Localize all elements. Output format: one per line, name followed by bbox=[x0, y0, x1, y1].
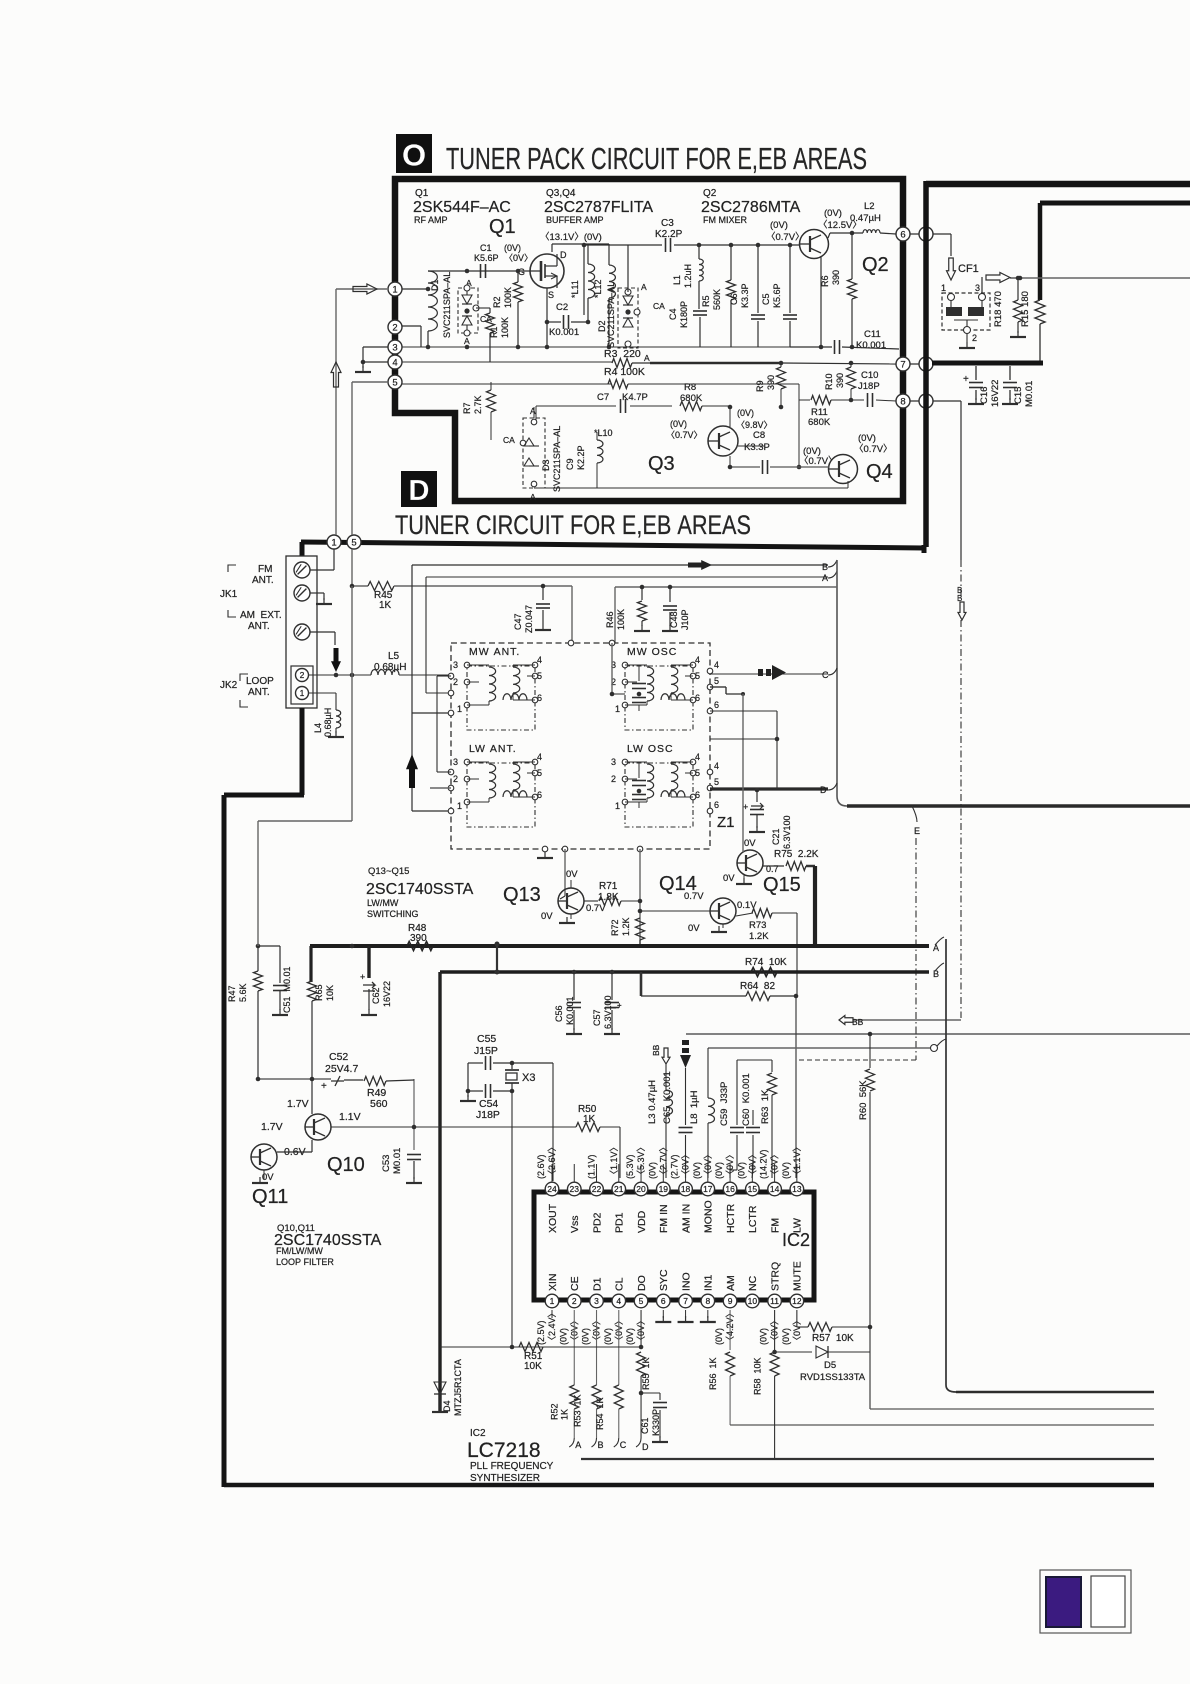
svg-text:SYNTHESIZER: SYNTHESIZER bbox=[470, 1473, 540, 1484]
svg-text:680K: 680K bbox=[680, 393, 703, 404]
svg-text:14: 14 bbox=[770, 1184, 780, 1194]
svg-text:R55 1K: R55 1K bbox=[641, 1357, 651, 1390]
svg-text:C57: C57 bbox=[592, 1009, 602, 1026]
svg-text:Z1: Z1 bbox=[717, 814, 735, 831]
svg-text:R4 100K: R4 100K bbox=[604, 366, 645, 378]
svg-text:(2.7V): (2.7V) bbox=[670, 1154, 680, 1179]
svg-text:R9: R9 bbox=[755, 380, 765, 392]
svg-text:Q10: Q10 bbox=[327, 1154, 365, 1176]
svg-text:IN1: IN1 bbox=[703, 1275, 715, 1292]
svg-text:D: D bbox=[560, 250, 567, 260]
svg-text:16V22: 16V22 bbox=[990, 380, 1001, 407]
svg-text:M0.01: M0.01 bbox=[392, 1148, 403, 1174]
svg-text:FM: FM bbox=[258, 564, 272, 575]
svg-text:560K: 560K bbox=[712, 289, 722, 310]
svg-text:R5: R5 bbox=[701, 295, 711, 307]
svg-text:C60 K0.001: C60 K0.001 bbox=[741, 1073, 752, 1126]
svg-text:SVC211SPA–AL: SVC211SPA–AL bbox=[606, 282, 616, 348]
svg-text:1: 1 bbox=[615, 801, 620, 811]
svg-text:1.2K: 1.2K bbox=[621, 917, 631, 936]
svg-text:R52: R52 bbox=[549, 1403, 559, 1420]
svg-text:8: 8 bbox=[900, 396, 905, 407]
svg-text:(0V): (0V) bbox=[770, 220, 788, 231]
svg-text:2.7K: 2.7K bbox=[473, 395, 483, 414]
svg-text:S: S bbox=[548, 290, 554, 300]
svg-text:10K: 10K bbox=[325, 985, 335, 1001]
svg-text:BB: BB bbox=[651, 1044, 661, 1056]
svg-text:(0V): (0V) bbox=[692, 1162, 702, 1179]
svg-text:C16: C16 bbox=[979, 387, 990, 404]
svg-text:3: 3 bbox=[453, 757, 458, 767]
svg-text:Q1: Q1 bbox=[415, 188, 429, 199]
svg-text:K5.6P: K5.6P bbox=[474, 253, 499, 263]
svg-text:C48: C48 bbox=[669, 611, 679, 628]
svg-text:K0.001: K0.001 bbox=[549, 327, 579, 338]
svg-text:A: A bbox=[822, 573, 828, 583]
svg-text:FM/LW/MW: FM/LW/MW bbox=[276, 1246, 323, 1256]
svg-text:23: 23 bbox=[570, 1184, 580, 1194]
svg-text:(0V): (0V) bbox=[504, 243, 521, 253]
svg-text:5: 5 bbox=[714, 676, 719, 686]
svg-text:HCTR: HCTR bbox=[725, 1203, 737, 1233]
svg-text:6.3V100: 6.3V100 bbox=[603, 995, 613, 1029]
svg-text:0.47µH: 0.47µH bbox=[850, 213, 881, 224]
svg-text:IC2: IC2 bbox=[470, 1428, 486, 1439]
svg-text:〈0V〉: 〈0V〉 bbox=[747, 1150, 757, 1179]
svg-text:C52: C52 bbox=[329, 1051, 348, 1063]
svg-text:2: 2 bbox=[611, 774, 616, 784]
svg-text:〈0V〉: 〈0V〉 bbox=[504, 253, 533, 263]
svg-text:(0V): (0V) bbox=[714, 1328, 724, 1345]
svg-text:PD1: PD1 bbox=[614, 1212, 626, 1233]
svg-text:R53 1K: R53 1K bbox=[573, 1394, 583, 1427]
svg-text:R58 10K: R58 10K bbox=[753, 1357, 763, 1395]
svg-text:CA: CA bbox=[503, 435, 515, 445]
svg-text:C10: C10 bbox=[861, 370, 878, 381]
svg-text:D: D bbox=[820, 785, 827, 795]
svg-text:6: 6 bbox=[661, 1296, 666, 1306]
svg-text:NC: NC bbox=[747, 1275, 759, 1291]
svg-text:R72: R72 bbox=[610, 919, 620, 936]
svg-text:L2: L2 bbox=[864, 201, 875, 212]
svg-text:AM IN: AM IN bbox=[680, 1204, 692, 1233]
svg-text:C51 M0.01: C51 M0.01 bbox=[282, 966, 292, 1013]
svg-text:E: E bbox=[914, 826, 920, 836]
svg-text:FM IN: FM IN bbox=[658, 1204, 670, 1233]
svg-text:MONO: MONO bbox=[703, 1200, 715, 1233]
svg-text:17: 17 bbox=[703, 1184, 713, 1194]
svg-text:+: + bbox=[321, 1081, 327, 1092]
svg-text:13: 13 bbox=[792, 1184, 802, 1194]
svg-text:L8 1µH: L8 1µH bbox=[689, 1090, 700, 1124]
svg-text:1: 1 bbox=[457, 704, 462, 714]
svg-text:390: 390 bbox=[835, 373, 845, 388]
svg-text:BUFFER AMP: BUFFER AMP bbox=[546, 215, 604, 225]
svg-text:(14.2V): (14.2V) bbox=[759, 1149, 769, 1179]
svg-text:1: 1 bbox=[300, 688, 305, 698]
svg-text:12: 12 bbox=[792, 1296, 802, 1306]
svg-text:R54 1K: R54 1K bbox=[595, 1397, 605, 1430]
svg-text:R10: R10 bbox=[824, 373, 834, 390]
svg-text:100K: 100K bbox=[500, 317, 510, 338]
svg-text:(0V): (0V) bbox=[824, 208, 842, 219]
svg-text:5.6K: 5.6K bbox=[238, 983, 248, 1002]
svg-text:7: 7 bbox=[683, 1296, 688, 1306]
svg-text:K0.001: K0.001 bbox=[565, 996, 575, 1025]
svg-text:DO: DO bbox=[636, 1275, 648, 1291]
svg-text:Q4: Q4 bbox=[866, 461, 893, 483]
svg-text:B: B bbox=[598, 1440, 604, 1450]
svg-text:15: 15 bbox=[748, 1184, 758, 1194]
svg-text:(0V): (0V) bbox=[759, 1328, 769, 1345]
svg-text:1.2K: 1.2K bbox=[749, 931, 769, 942]
svg-text:3: 3 bbox=[594, 1296, 599, 1306]
svg-text:6: 6 bbox=[714, 700, 719, 710]
svg-text:0.7V: 0.7V bbox=[684, 891, 704, 902]
svg-text:2SK544F–AC: 2SK544F–AC bbox=[413, 199, 511, 216]
svg-text:0V: 0V bbox=[723, 873, 735, 884]
svg-text:2: 2 bbox=[572, 1296, 577, 1306]
svg-text:A: A bbox=[641, 282, 647, 292]
svg-text:Q3: Q3 bbox=[648, 453, 675, 475]
svg-text:MW OSC: MW OSC bbox=[627, 646, 677, 658]
svg-text:LW ANT.: LW ANT. bbox=[469, 743, 517, 755]
svg-text:ANT.: ANT. bbox=[248, 687, 270, 698]
svg-text:R57 10K: R57 10K bbox=[812, 1333, 854, 1344]
svg-text:(0V): (0V) bbox=[737, 408, 754, 418]
svg-text:*L12: *L12 bbox=[593, 279, 603, 298]
svg-text:3: 3 bbox=[975, 283, 980, 293]
svg-text:(2.6V): (2.6V) bbox=[536, 1154, 546, 1179]
svg-text:SWITCHING: SWITCHING bbox=[367, 909, 419, 919]
svg-text:STRQ: STRQ bbox=[769, 1262, 781, 1291]
svg-text:CF1: CF1 bbox=[958, 263, 979, 275]
svg-text:C55: C55 bbox=[477, 1033, 496, 1045]
svg-text:18: 18 bbox=[681, 1184, 691, 1194]
svg-text:R15 180: R15 180 bbox=[1020, 291, 1031, 327]
svg-text:16V22: 16V22 bbox=[382, 981, 392, 1007]
svg-text:R74 10K: R74 10K bbox=[745, 957, 787, 968]
svg-text:LW: LW bbox=[792, 1218, 804, 1233]
svg-text:R63 1K: R63 1K bbox=[760, 1089, 771, 1124]
svg-text:AM EXT.: AM EXT. bbox=[240, 610, 282, 621]
svg-text:J18P: J18P bbox=[476, 1109, 500, 1121]
svg-text:LW OSC: LW OSC bbox=[627, 743, 674, 755]
svg-text:BB: BB bbox=[852, 1017, 864, 1027]
svg-text:C56: C56 bbox=[554, 1005, 564, 1022]
svg-text:〈2.6V〉: 〈2.6V〉 bbox=[547, 1142, 557, 1179]
svg-text:C6: C6 bbox=[729, 293, 739, 305]
svg-text:LOOP FILTER: LOOP FILTER bbox=[276, 1257, 334, 1267]
svg-text:SVC211SPA–AL: SVC211SPA–AL bbox=[552, 426, 562, 492]
svg-text:(2.5V): (2.5V) bbox=[536, 1320, 546, 1345]
svg-text:C62: C62 bbox=[371, 987, 381, 1004]
svg-text:+: + bbox=[617, 1001, 622, 1010]
svg-text:0.7V: 0.7V bbox=[586, 903, 606, 914]
svg-text:(0V): (0V) bbox=[558, 1328, 568, 1345]
svg-text:0.7: 0.7 bbox=[766, 864, 779, 874]
svg-text:Q13: Q13 bbox=[503, 884, 541, 906]
svg-text:10K: 10K bbox=[524, 1361, 542, 1372]
svg-text:C7: C7 bbox=[597, 392, 609, 403]
svg-text:19: 19 bbox=[659, 1184, 669, 1194]
svg-text:0V: 0V bbox=[566, 869, 578, 880]
svg-text:3: 3 bbox=[453, 660, 458, 670]
svg-text:560: 560 bbox=[370, 1098, 388, 1110]
svg-text:R73: R73 bbox=[749, 920, 766, 931]
svg-text:C3: C3 bbox=[661, 218, 674, 229]
svg-text:Q13~Q15: Q13~Q15 bbox=[368, 866, 409, 877]
svg-text:D5: D5 bbox=[824, 1360, 836, 1371]
svg-text:R2: R2 bbox=[492, 296, 502, 308]
svg-text:20: 20 bbox=[636, 1184, 646, 1194]
svg-text:JK1: JK1 bbox=[220, 589, 238, 600]
svg-text:8: 8 bbox=[705, 1296, 710, 1306]
svg-text:0V: 0V bbox=[744, 838, 756, 849]
svg-text:1K: 1K bbox=[379, 600, 392, 611]
svg-text:〈5.3V〉: 〈5.3V〉 bbox=[636, 1142, 646, 1179]
svg-text:M0.01: M0.01 bbox=[1024, 381, 1035, 407]
svg-text:1: 1 bbox=[941, 283, 946, 293]
svg-text:(0V): (0V) bbox=[858, 433, 876, 444]
svg-text:Z0.047: Z0.047 bbox=[524, 605, 534, 633]
svg-text:〈13.1V〉(0V): 〈13.1V〉(0V) bbox=[540, 232, 602, 243]
svg-text:CE: CE bbox=[569, 1276, 581, 1291]
svg-text:CA: CA bbox=[653, 301, 665, 311]
svg-text:Q2: Q2 bbox=[703, 188, 717, 199]
svg-text:L4: L4 bbox=[313, 723, 323, 733]
svg-text:390: 390 bbox=[831, 270, 841, 285]
svg-text:〈0V〉: 〈0V〉 bbox=[770, 1150, 780, 1179]
svg-text:〈0.7V〉: 〈0.7V〉 bbox=[799, 456, 838, 467]
svg-text:2: 2 bbox=[453, 774, 458, 784]
svg-text:C21: C21 bbox=[771, 828, 781, 845]
svg-text:K5.6P: K5.6P bbox=[772, 283, 782, 308]
svg-text:C8: C8 bbox=[753, 430, 765, 441]
svg-text:Q15: Q15 bbox=[763, 874, 801, 896]
svg-text:+: + bbox=[963, 374, 969, 385]
svg-text:A: A bbox=[575, 1440, 581, 1450]
svg-text:+: + bbox=[743, 802, 748, 812]
svg-text:D4: D4 bbox=[442, 1400, 452, 1412]
svg-text:VDD: VDD bbox=[636, 1210, 648, 1233]
svg-text:(0V): (0V) bbox=[714, 1162, 724, 1179]
svg-text:7: 7 bbox=[900, 359, 905, 370]
svg-text:6: 6 bbox=[900, 229, 905, 240]
svg-text:Q11: Q11 bbox=[252, 1186, 288, 1208]
svg-text:K0.001: K0.001 bbox=[856, 340, 886, 351]
svg-text:*L11: *L11 bbox=[570, 280, 580, 298]
svg-text:J15P: J15P bbox=[474, 1045, 498, 1057]
svg-text:K3.3P: K3.3P bbox=[740, 283, 750, 308]
svg-text:(5.3V): (5.3V) bbox=[625, 1154, 635, 1179]
svg-text:R65: R65 bbox=[314, 984, 324, 1001]
svg-text:1.7V: 1.7V bbox=[261, 1121, 283, 1133]
svg-text:C53: C53 bbox=[381, 1155, 392, 1172]
svg-text:K2.2P: K2.2P bbox=[576, 445, 586, 470]
svg-text:K3.3P: K3.3P bbox=[744, 442, 770, 453]
svg-text:RF AMP: RF AMP bbox=[414, 215, 448, 225]
svg-text:(0V): (0V) bbox=[736, 1162, 746, 1179]
svg-text:2: 2 bbox=[453, 677, 458, 687]
svg-text:1: 1 bbox=[615, 704, 620, 714]
svg-text:5: 5 bbox=[392, 377, 397, 388]
svg-text:D: D bbox=[642, 1442, 649, 1452]
svg-text:FM: FM bbox=[769, 1218, 781, 1233]
svg-text:4: 4 bbox=[714, 761, 719, 771]
svg-text:1.1V: 1.1V bbox=[339, 1111, 361, 1123]
svg-text:LC7218: LC7218 bbox=[467, 1439, 541, 1462]
svg-text:3: 3 bbox=[392, 342, 397, 353]
svg-text:+: + bbox=[360, 972, 365, 982]
svg-text:2: 2 bbox=[300, 670, 305, 680]
svg-text:(0V): (0V) bbox=[781, 1328, 791, 1345]
svg-text:11: 11 bbox=[770, 1296, 779, 1306]
svg-text:INO: INO bbox=[680, 1272, 692, 1291]
svg-text:〈0V〉: 〈0V〉 bbox=[725, 1150, 735, 1179]
svg-text:1K: 1K bbox=[559, 1409, 569, 1420]
svg-text:〈1.1V〉: 〈1.1V〉 bbox=[609, 1142, 619, 1179]
svg-text:R46: R46 bbox=[605, 611, 615, 628]
svg-text:MTZJ5R1CTA: MTZJ5R1CTA bbox=[453, 1359, 463, 1416]
svg-text:K180P: K180P bbox=[679, 301, 689, 328]
svg-text:(0V): (0V) bbox=[603, 1328, 613, 1345]
svg-text:24: 24 bbox=[547, 1184, 557, 1194]
svg-text:B: B bbox=[822, 562, 828, 572]
svg-text:K330P: K330P bbox=[651, 1409, 661, 1436]
svg-text:C65 K0.001: C65 K0.001 bbox=[662, 1071, 673, 1124]
svg-text:2: 2 bbox=[392, 322, 397, 333]
svg-text:22: 22 bbox=[592, 1184, 602, 1194]
svg-text:L1: L1 bbox=[672, 275, 682, 285]
svg-text:CL: CL bbox=[614, 1277, 626, 1291]
svg-text:3: 3 bbox=[611, 757, 616, 767]
svg-text:PD2: PD2 bbox=[591, 1212, 603, 1233]
svg-text:LOOP: LOOP bbox=[246, 676, 274, 687]
svg-text:〈2.7V〉: 〈2.7V〉 bbox=[658, 1142, 668, 1179]
svg-text:MUTE: MUTE bbox=[792, 1261, 804, 1291]
svg-text:K2.2P: K2.2P bbox=[655, 229, 683, 240]
svg-text:(0V): (0V) bbox=[625, 1328, 635, 1345]
svg-text:0.68µH: 0.68µH bbox=[323, 708, 333, 737]
svg-text:C2: C2 bbox=[556, 302, 568, 313]
svg-text:(0V): (0V) bbox=[581, 1328, 591, 1345]
svg-text:ANT.: ANT. bbox=[252, 575, 274, 586]
svg-text:6.3V100: 6.3V100 bbox=[782, 815, 792, 849]
svg-text:Q3,Q4: Q3,Q4 bbox=[546, 188, 576, 199]
svg-text:C: C bbox=[822, 670, 829, 680]
svg-text:〈0.7V〉: 〈0.7V〉 bbox=[854, 444, 893, 455]
svg-text:1.7V: 1.7V bbox=[287, 1098, 309, 1110]
svg-text:〈0.7V〉: 〈0.7V〉 bbox=[666, 430, 703, 440]
svg-text:2: 2 bbox=[972, 333, 977, 343]
svg-text:J18P: J18P bbox=[858, 381, 880, 392]
svg-text:2SC1740SSTA: 2SC1740SSTA bbox=[366, 881, 474, 898]
svg-text:(0V): (0V) bbox=[647, 1162, 657, 1179]
svg-text:2SC2787FLITA: 2SC2787FLITA bbox=[544, 199, 653, 216]
svg-text:1.2uH: 1.2uH bbox=[683, 264, 693, 288]
svg-text:5: 5 bbox=[351, 537, 356, 548]
svg-text:A: A bbox=[464, 336, 470, 346]
svg-text:R3 220: R3 220 bbox=[604, 348, 641, 360]
svg-text:R71: R71 bbox=[599, 881, 618, 892]
svg-text:C9: C9 bbox=[565, 458, 575, 470]
svg-text:R75 2.2K: R75 2.2K bbox=[774, 849, 819, 860]
svg-text:XIN: XIN bbox=[547, 1273, 559, 1291]
svg-text:J10P: J10P bbox=[680, 609, 690, 630]
svg-text:R18 470: R18 470 bbox=[993, 291, 1004, 327]
svg-text:〈0V〉: 〈0V〉 bbox=[681, 1150, 691, 1179]
svg-text:1: 1 bbox=[550, 1296, 555, 1306]
svg-text:C47: C47 bbox=[513, 613, 523, 630]
svg-text:680K: 680K bbox=[808, 417, 831, 428]
svg-text:R47: R47 bbox=[227, 985, 237, 1002]
svg-text:5: 5 bbox=[639, 1296, 644, 1306]
svg-text:〈9.8V〉: 〈9.8V〉 bbox=[736, 420, 773, 430]
svg-text:〈1.1V〉: 〈1.1V〉 bbox=[792, 1142, 802, 1179]
svg-text:(1.1V): (1.1V) bbox=[587, 1154, 597, 1179]
svg-text:O: O bbox=[402, 138, 426, 173]
svg-text:LW/MW: LW/MW bbox=[367, 898, 399, 908]
svg-text:1: 1 bbox=[392, 284, 397, 295]
svg-text:Q1: Q1 bbox=[489, 216, 516, 238]
svg-text:AM: AM bbox=[725, 1275, 737, 1291]
svg-text:TUNER CIRCUIT FOR E,EB AREAS: TUNER CIRCUIT FOR E,EB AREAS bbox=[395, 510, 751, 540]
svg-text:1: 1 bbox=[457, 801, 462, 811]
svg-text:SYC: SYC bbox=[658, 1269, 670, 1291]
svg-text:0V: 0V bbox=[541, 911, 553, 922]
svg-text:21: 21 bbox=[614, 1184, 624, 1194]
svg-text:TUNER PACK CIRCUIT FOR E,EB AR: TUNER PACK CIRCUIT FOR E,EB AREAS bbox=[446, 141, 867, 176]
svg-text:PLL FREQUENCY: PLL FREQUENCY bbox=[470, 1461, 554, 1472]
svg-text:R7: R7 bbox=[462, 402, 472, 414]
svg-text:D3: D3 bbox=[541, 459, 551, 471]
svg-text:100K: 100K bbox=[503, 287, 513, 308]
svg-text:C11: C11 bbox=[864, 329, 881, 340]
svg-text:16: 16 bbox=[725, 1184, 735, 1194]
svg-text:4: 4 bbox=[714, 660, 719, 670]
svg-text:2SC2786MTA: 2SC2786MTA bbox=[701, 199, 801, 216]
svg-text:LCTR: LCTR bbox=[747, 1205, 759, 1233]
svg-text:0V: 0V bbox=[688, 923, 700, 934]
svg-text:10: 10 bbox=[748, 1296, 758, 1306]
svg-text:〈0.7V〉: 〈0.7V〉 bbox=[766, 232, 805, 243]
svg-text:Q2: Q2 bbox=[862, 254, 889, 276]
svg-text:100K: 100K bbox=[616, 609, 626, 630]
svg-text:L5: L5 bbox=[388, 651, 400, 662]
svg-text:R56 1K: R56 1K bbox=[708, 1357, 718, 1390]
svg-text:FM MIXER: FM MIXER bbox=[703, 215, 747, 225]
svg-text:C1: C1 bbox=[480, 243, 492, 253]
svg-text:5: 5 bbox=[714, 777, 719, 787]
svg-text:A: A bbox=[644, 353, 650, 363]
svg-text:25V4.7: 25V4.7 bbox=[325, 1063, 358, 1075]
svg-text:C4: C4 bbox=[668, 308, 678, 320]
svg-text:A: A bbox=[530, 406, 536, 416]
svg-text:SVC211SPA–AL: SVC211SPA–AL bbox=[442, 272, 452, 338]
svg-text:Vss: Vss bbox=[569, 1215, 581, 1233]
svg-text:1: 1 bbox=[331, 537, 336, 548]
svg-text:C: C bbox=[620, 1440, 627, 1450]
svg-text:A: A bbox=[530, 492, 536, 502]
svg-text:(0V): (0V) bbox=[670, 419, 687, 429]
svg-text:MW ANT.: MW ANT. bbox=[469, 646, 520, 658]
svg-text:L3 0.47µH: L3 0.47µH bbox=[647, 1080, 658, 1124]
svg-text:R8: R8 bbox=[684, 382, 696, 393]
svg-text:4: 4 bbox=[616, 1296, 621, 1306]
svg-text:C61: C61 bbox=[640, 1417, 650, 1434]
svg-text:〈0V〉: 〈0V〉 bbox=[703, 1150, 713, 1179]
